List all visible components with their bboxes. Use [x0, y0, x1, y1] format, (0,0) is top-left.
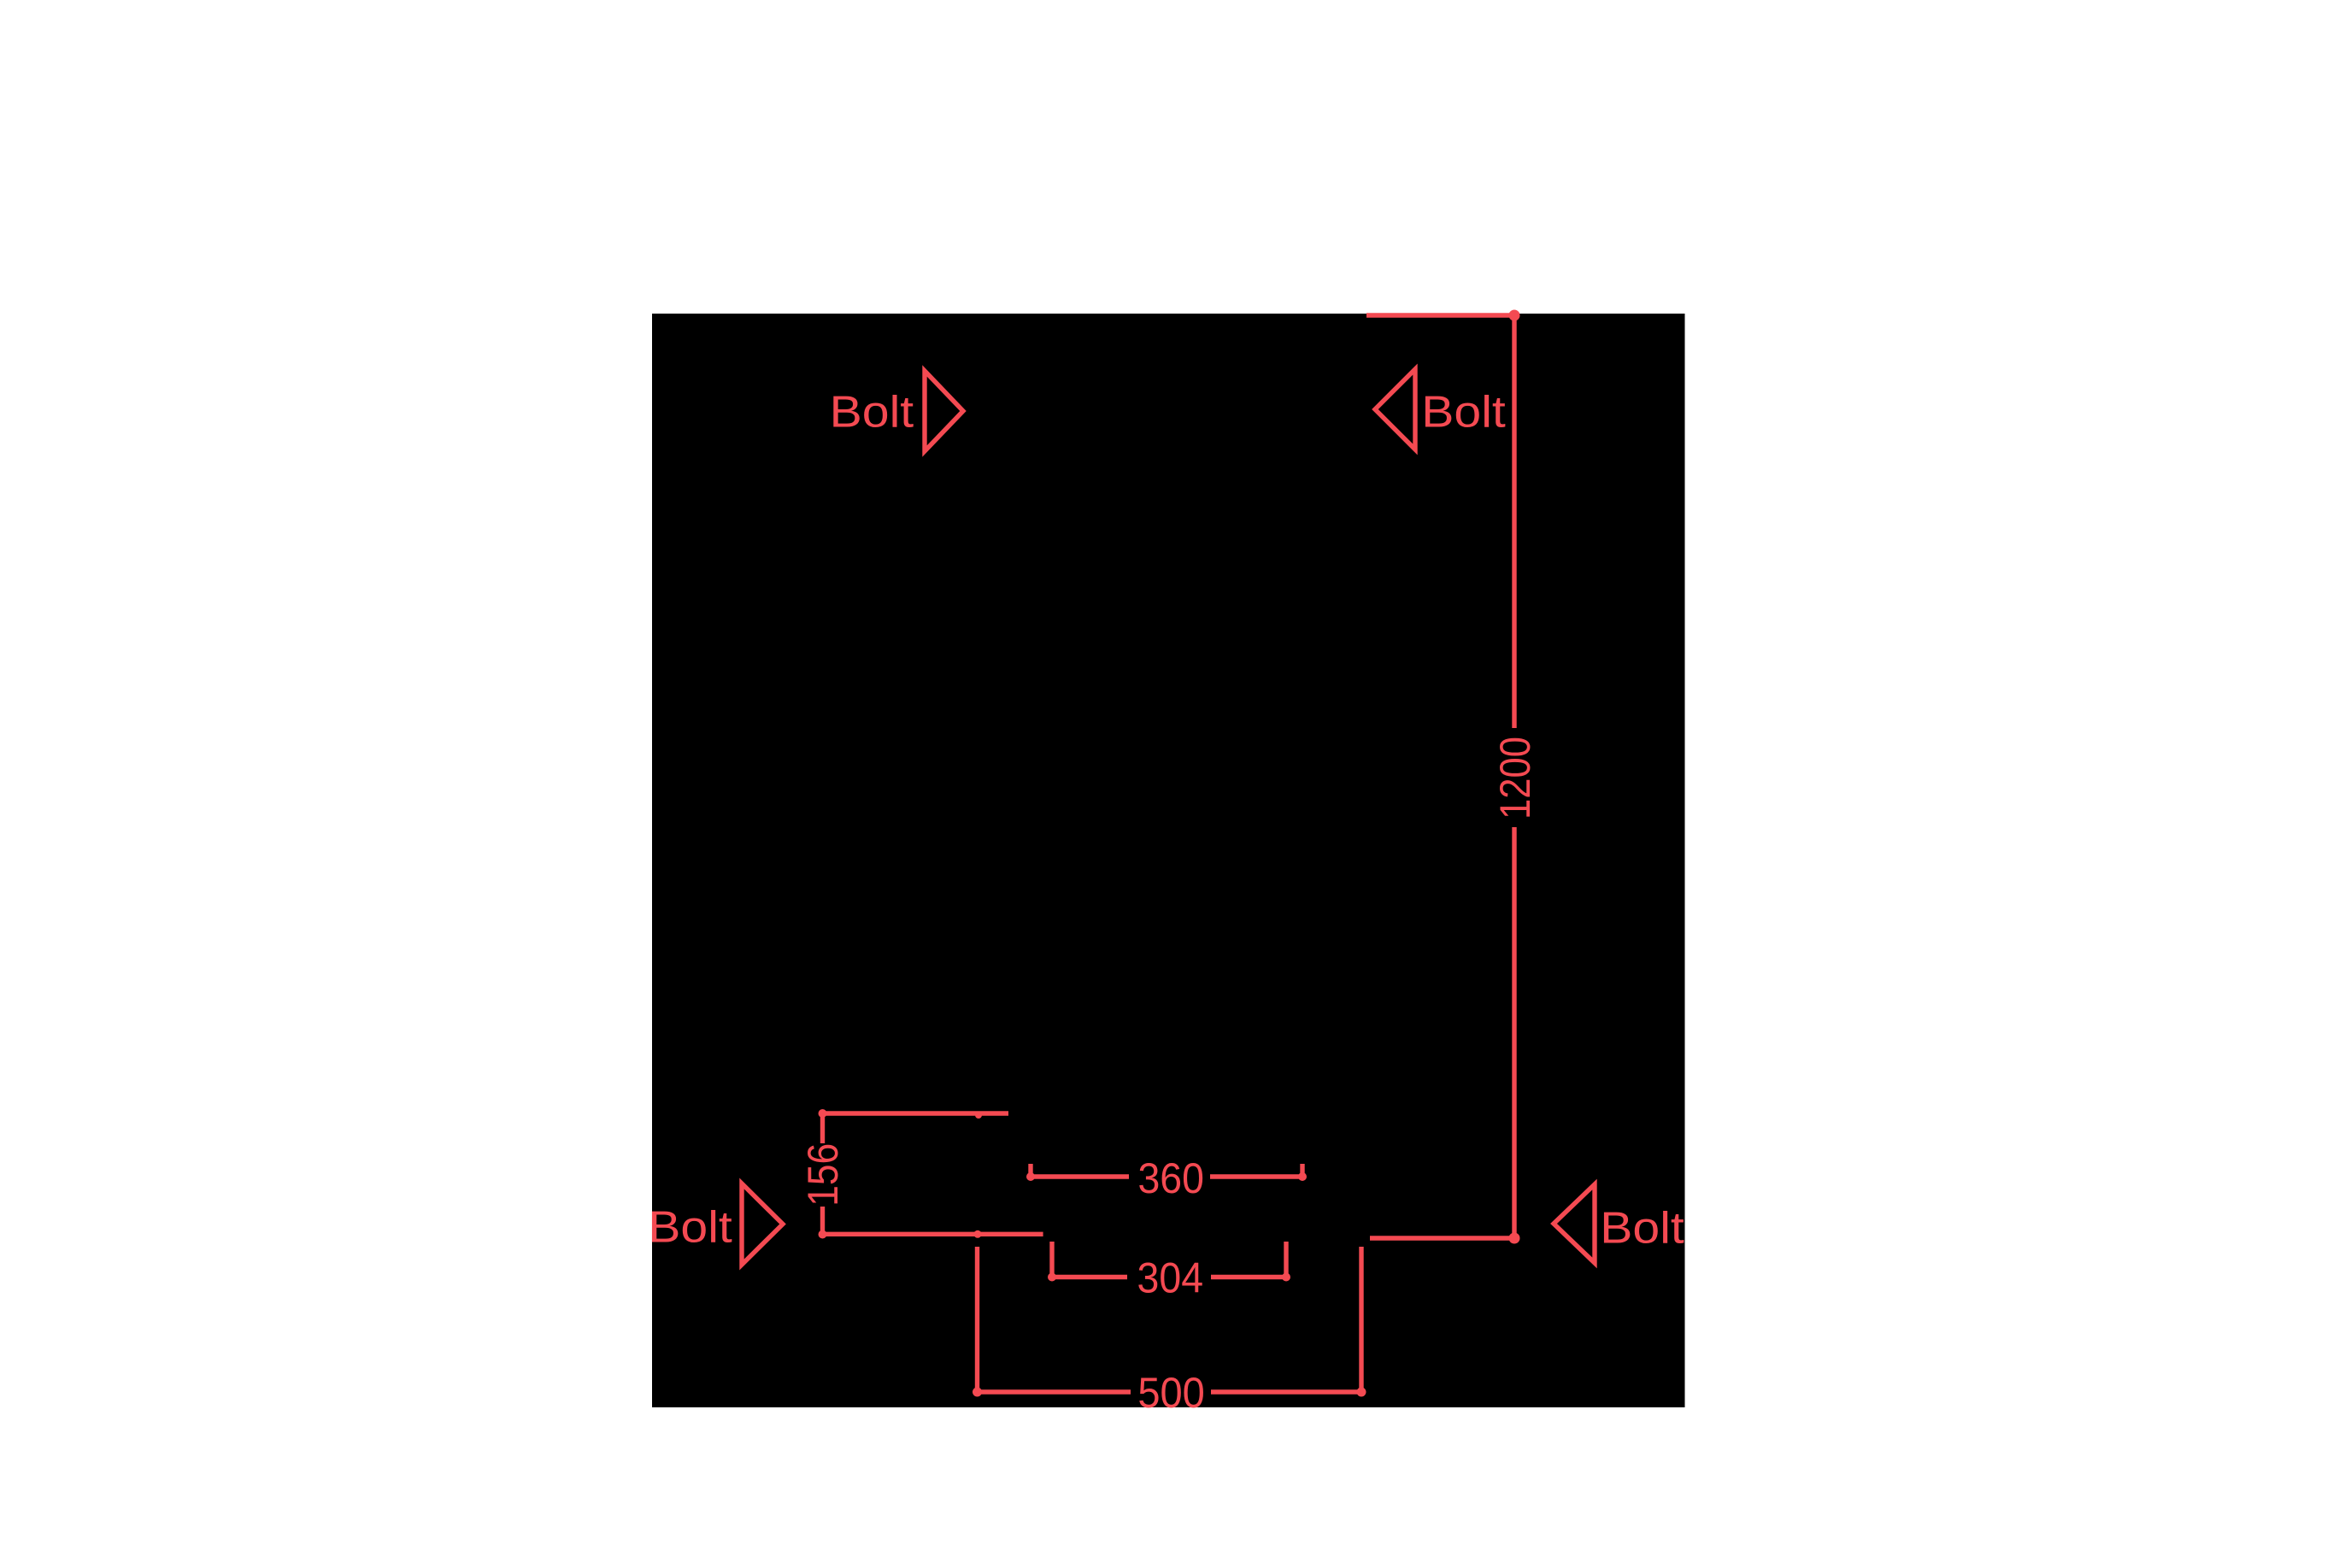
- junction dot 156 top: [819, 1109, 827, 1118]
- dimension 500 right leg: [1359, 1247, 1363, 1392]
- dimension 1200 vertical line upper segment: [1512, 315, 1516, 728]
- dimension 1200 top extension line: [1366, 313, 1514, 317]
- junction dot 500 right: [1357, 1388, 1366, 1397]
- junction dot 500 left: [973, 1388, 982, 1397]
- dimension 156 vertical line lower segment: [820, 1207, 825, 1235]
- dimension 360 right tick: [1300, 1164, 1304, 1177]
- dimension 500 line right segment: [1211, 1389, 1361, 1394]
- dimension 156 vertical line upper segment: [820, 1113, 825, 1143]
- junction dot 156 bottom: [819, 1230, 827, 1239]
- svg-text:360: 360: [1137, 1154, 1204, 1202]
- dimension 360 left tick: [1028, 1164, 1032, 1177]
- bolt arrow bottom-right: [1554, 1184, 1595, 1263]
- dimension 304 left tick: [1049, 1242, 1054, 1277]
- junction dot bolt level left: [974, 1230, 982, 1238]
- dimension 360 line left segment: [1031, 1174, 1129, 1178]
- dimension 1200 vertical line lower segment: [1512, 827, 1516, 1238]
- svg-text:500: 500: [1137, 1369, 1205, 1417]
- bolt level line left: [823, 1232, 1043, 1236]
- dimension 304 right tick: [1284, 1242, 1288, 1277]
- bolt arrow bottom-left: [742, 1183, 783, 1265]
- junction dot 1200 bottom: [1509, 1233, 1520, 1244]
- svg-text:Bolt: Bolt: [830, 387, 914, 437]
- junction dot 304 right: [1282, 1273, 1290, 1282]
- bolt arrow top-right: [1375, 369, 1415, 449]
- junction dot 156 top line bolt mark: [975, 1112, 982, 1119]
- bolt arrow top-left: [925, 371, 963, 451]
- dimension 500 line left segment: [977, 1389, 1131, 1394]
- junction dot 360 left: [1026, 1172, 1035, 1181]
- svg-text:Bolt: Bolt: [1421, 388, 1506, 438]
- bolt level line right: [1370, 1236, 1514, 1240]
- dimension 500 left leg: [975, 1247, 979, 1392]
- junction dot 1200 top: [1509, 310, 1520, 321]
- dimension 360 line right segment: [1210, 1174, 1302, 1178]
- dimension 156 top horizontal line: [823, 1111, 1009, 1115]
- junction dot 304 left: [1048, 1273, 1056, 1282]
- svg-text:Bolt: Bolt: [648, 1203, 732, 1253]
- svg-text:156: 156: [799, 1143, 847, 1207]
- dimension 304 line right segment: [1211, 1275, 1286, 1279]
- product silhouette (black panel): [652, 314, 1685, 1407]
- dimension 304 line left segment: [1052, 1275, 1127, 1279]
- svg-text:Bolt: Bolt: [1600, 1204, 1684, 1254]
- junction dot 360 right: [1298, 1172, 1307, 1181]
- svg-text:1200: 1200: [1491, 737, 1539, 819]
- svg-text:304: 304: [1137, 1254, 1204, 1302]
